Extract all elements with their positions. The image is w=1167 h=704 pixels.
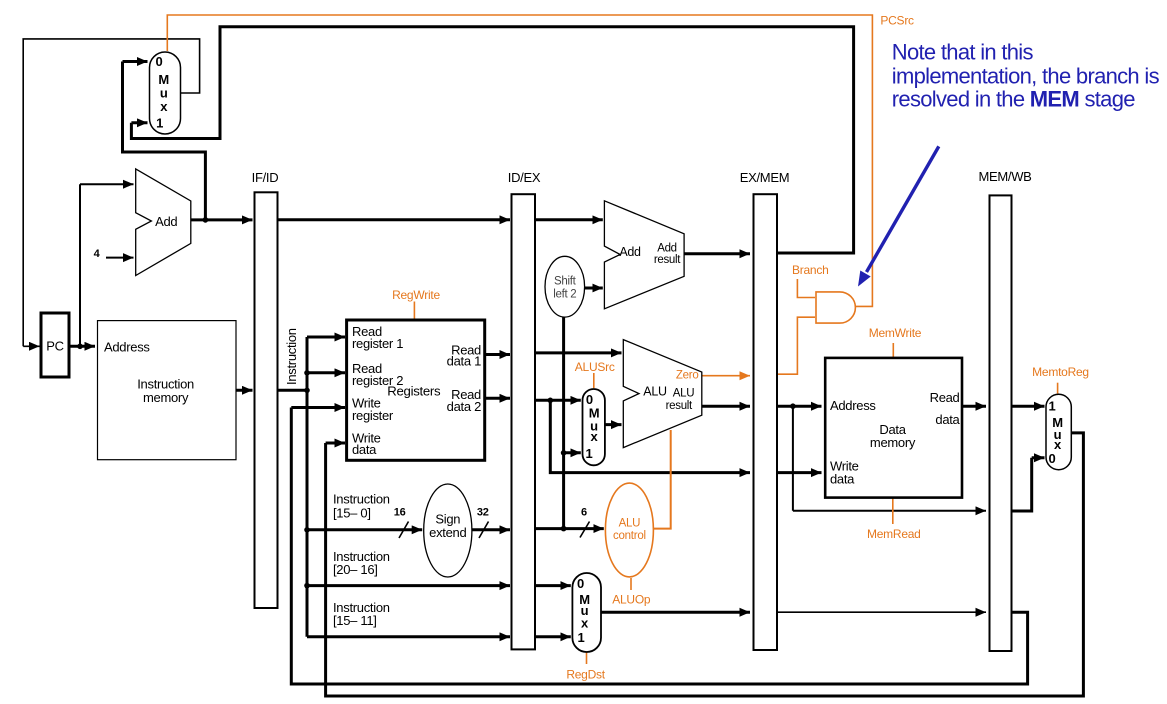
slash 6-bit bbox=[580, 522, 590, 538]
alu U-ALU bbox=[623, 340, 702, 448]
svg-text:Add: Add bbox=[657, 243, 677, 255]
wire Read data 1 to ID/EX bbox=[485, 353, 510, 356]
wire read data 2 down to EX/MEM bbox=[550, 400, 750, 472]
wire sign-extend branch to ALUSrc mux 1 bbox=[564, 451, 581, 454]
ellipse ALU control bbox=[605, 483, 653, 577]
svg-text:data: data bbox=[935, 412, 960, 427]
wire MEM/WB ALU result to MemtoReg mux 0 bbox=[1012, 458, 1045, 511]
svg-text:32: 32 bbox=[477, 507, 489, 519]
adder Add result (branch target) bbox=[604, 201, 684, 309]
svg-text:extend: extend bbox=[429, 525, 466, 540]
slash 16-bit bbox=[399, 522, 409, 539]
node sign extend bus junction at mux bbox=[561, 450, 567, 456]
wire PC junction up to Add top input bbox=[80, 184, 134, 346]
svg-text:data: data bbox=[830, 472, 855, 487]
svg-text:Registers: Registers bbox=[387, 383, 441, 398]
svg-text:[20– 16]: [20– 16] bbox=[333, 562, 378, 577]
register PC bbox=[41, 313, 69, 377]
svg-text:register 1: register 1 bbox=[352, 336, 403, 351]
wire instruction 15-0 to sign extend bbox=[307, 528, 422, 531]
svg-text:ALU: ALU bbox=[673, 387, 694, 399]
svg-text:register: register bbox=[352, 408, 394, 423]
mux PC source mux bbox=[150, 52, 181, 134]
memory data memory bbox=[825, 358, 962, 498]
svg-text:EX/MEM: EX/MEM bbox=[740, 170, 789, 185]
svg-text:ALU: ALU bbox=[619, 517, 641, 529]
ORANGE CONTROL LABELS bbox=[392, 13, 1089, 681]
svg-text:Instruction: Instruction bbox=[284, 328, 299, 385]
node instruction bus junction read register 2 bbox=[304, 370, 310, 376]
wire instruction bus from IF/ID bbox=[278, 337, 308, 637]
wire instruction to Read register 2 bbox=[307, 371, 345, 374]
wire instruction 15-11 to ID/EX bbox=[307, 635, 510, 638]
node instruction bus junction 20-16 bbox=[304, 583, 310, 589]
wire sign-extend bus up to shift left 2 bbox=[562, 317, 565, 528]
wire EX/MEM ALU result to data memory address bbox=[777, 405, 822, 408]
wire RegDst control stub bbox=[586, 653, 588, 665]
svg-text:Instruction: Instruction bbox=[333, 492, 390, 507]
wire ALUSrc mux output to ALU bbox=[605, 423, 622, 426]
svg-text:1: 1 bbox=[578, 630, 585, 645]
wire instruction memory output to IF/ID bbox=[236, 389, 253, 392]
svg-text:Address: Address bbox=[830, 398, 876, 413]
svg-text:Note that in this: Note that in this bbox=[892, 40, 1034, 65]
svg-text:RegDst: RegDst bbox=[566, 667, 605, 681]
svg-text:MemtoReg: MemtoReg bbox=[1032, 365, 1089, 379]
wire instruction 15-11 from ID/EX to RegDst mux 1 bbox=[535, 635, 571, 638]
svg-text:data: data bbox=[352, 442, 377, 457]
mux RegDst mux bbox=[572, 573, 601, 652]
wire PC+4 to top mux input 0 bbox=[123, 62, 206, 220]
wire Add output to IF/ID bbox=[191, 218, 253, 221]
wire PC+4 from ID/EX to branch adder bbox=[535, 218, 603, 221]
svg-text:PCSrc: PCSrc bbox=[880, 13, 914, 27]
wire ALUOp control stub bbox=[630, 578, 632, 590]
ellipse sign extend bbox=[424, 484, 472, 577]
wire EX/MEM write data to data memory bbox=[777, 471, 822, 474]
svg-text:x: x bbox=[1054, 437, 1062, 452]
wire top mux output wrap-around to PC bbox=[23, 39, 199, 346]
wire data memory read data to MEM/WB bbox=[962, 405, 986, 408]
wire constant 4 into Add bbox=[106, 257, 134, 259]
svg-text:result: result bbox=[654, 254, 681, 266]
wire instruction 20-16 from ID/EX to RegDst mux 0 bbox=[535, 584, 571, 587]
svg-text:Branch: Branch bbox=[792, 263, 829, 277]
svg-text:memory: memory bbox=[870, 435, 916, 450]
svg-text:RegWrite: RegWrite bbox=[392, 288, 440, 302]
wire branch target from EX/MEM to top mux input 1 bbox=[131, 27, 853, 253]
wire instruction to Read register 1 bbox=[307, 336, 345, 339]
svg-text:Read: Read bbox=[930, 390, 960, 405]
wire Branch control into AND gate bbox=[797, 279, 815, 298]
note blue annotation text bbox=[892, 40, 1160, 112]
arrow blue annotation arrow bbox=[867, 146, 939, 272]
svg-text:MEM/WB: MEM/WB bbox=[978, 169, 1031, 184]
wire MEM/WB read data to MemtoReg mux 1 bbox=[1012, 405, 1045, 408]
svg-text:ALUSrc: ALUSrc bbox=[575, 360, 615, 374]
node ALU result junction bbox=[790, 403, 796, 409]
memory instruction memory bbox=[98, 321, 237, 460]
wire ALU control output to ALU bbox=[653, 430, 670, 529]
register ID/EX bbox=[512, 194, 536, 649]
svg-text:1: 1 bbox=[586, 446, 593, 461]
mux ALUSrc mux bbox=[583, 389, 605, 465]
register EX/MEM bbox=[754, 194, 778, 650]
svg-text:result: result bbox=[666, 400, 693, 412]
registers register file bbox=[347, 320, 485, 460]
svg-text:0: 0 bbox=[1049, 451, 1056, 466]
svg-text:ALU: ALU bbox=[643, 385, 667, 399]
gate AND gate (branch) bbox=[816, 292, 855, 323]
wire RegWrite control stub bbox=[413, 302, 415, 320]
wire sign-extended bus ID/EX to ALU control bbox=[535, 527, 604, 530]
wire ALU result to EX/MEM bbox=[702, 405, 750, 408]
wire Read data 2 to ID/EX bbox=[485, 397, 510, 400]
svg-text:x: x bbox=[160, 99, 168, 114]
node instruction bus junction 15-0 bbox=[304, 527, 310, 533]
svg-text:[15– 11]: [15– 11] bbox=[333, 613, 377, 628]
svg-text:16: 16 bbox=[394, 507, 406, 519]
svg-text:[15– 0]: [15– 0] bbox=[333, 505, 371, 520]
register IF/ID bbox=[255, 192, 278, 608]
svg-text:ID/EX: ID/EX bbox=[508, 170, 541, 185]
node PC+4 junction bbox=[203, 217, 209, 223]
wire ID/EX read data 2 to ALUSrc mux 0 bbox=[535, 399, 581, 402]
wire MemtoReg control stub bbox=[1057, 383, 1059, 394]
slash 32-bit bbox=[479, 522, 489, 539]
wire ALUSrc control stub bbox=[593, 373, 595, 388]
svg-text:Zero: Zero bbox=[676, 370, 699, 382]
svg-text:control: control bbox=[613, 530, 646, 542]
wire branch adder result to EX/MEM bbox=[684, 252, 750, 255]
wire ID/EX to ALU top input bbox=[535, 351, 622, 354]
svg-text:Add: Add bbox=[155, 214, 177, 229]
svg-text:IF/ID: IF/ID bbox=[252, 170, 279, 185]
wire shift left 2 output to branch adder bbox=[585, 287, 603, 290]
wire instruction 20-16 to ID/EX bbox=[307, 584, 510, 587]
svg-text:x: x bbox=[591, 429, 599, 444]
mux MemtoReg mux bbox=[1046, 394, 1071, 469]
wire PC output to instruction memory address bbox=[69, 345, 95, 348]
svg-text:MemRead: MemRead bbox=[867, 527, 921, 541]
svg-text:0: 0 bbox=[577, 576, 584, 591]
svg-text:1: 1 bbox=[156, 115, 163, 130]
svg-text:MemWrite: MemWrite bbox=[869, 326, 922, 340]
wire PC+4 from IF/ID to ID/EX bbox=[278, 218, 511, 221]
wire sign extend output to ID/EX bbox=[472, 528, 510, 531]
wire register destination EX/MEM to MEM/WB bbox=[777, 611, 986, 613]
wire MemtoReg mux output wrap-around to write data bbox=[326, 433, 1084, 696]
wire MemWrite control stub bbox=[892, 343, 894, 357]
wire RegDst mux output to EX/MEM bbox=[601, 611, 750, 614]
wire ALU result bypass to MEM/WB bbox=[793, 406, 986, 511]
svg-text:Address: Address bbox=[104, 339, 150, 354]
wire MemRead control stub bbox=[892, 498, 894, 524]
node instruction bus junction main bbox=[304, 388, 310, 394]
adder Add (PC+4) bbox=[136, 169, 191, 276]
svg-text:implementation, the branch is: implementation, the branch is bbox=[892, 63, 1160, 88]
svg-text:data 2: data 2 bbox=[447, 399, 481, 414]
svg-text:1: 1 bbox=[1049, 399, 1056, 414]
wire PCSrc from AND gate to top mux select bbox=[167, 15, 872, 306]
svg-text:0: 0 bbox=[156, 54, 163, 69]
svg-text:6: 6 bbox=[581, 506, 587, 518]
svg-text:data 1: data 1 bbox=[447, 354, 481, 369]
svg-text:memory: memory bbox=[143, 390, 189, 405]
node sign extend bus junction lower bbox=[561, 526, 567, 532]
wire Zero from EX/MEM into AND gate bbox=[777, 317, 815, 374]
wire write register wrap-around from MEM/WB bbox=[291, 408, 1027, 685]
svg-text:Shift: Shift bbox=[554, 275, 577, 287]
svg-text:resolved in the MEM stage: resolved in the MEM stage bbox=[892, 86, 1135, 111]
svg-text:0: 0 bbox=[586, 392, 593, 407]
wire Zero flag ALU to EX/MEM bbox=[702, 375, 750, 377]
node read data 2 junction bbox=[548, 398, 554, 404]
svg-text:Add: Add bbox=[619, 245, 641, 259]
ellipse shift left 2 bbox=[545, 256, 585, 317]
svg-text:ALUOp: ALUOp bbox=[612, 593, 651, 607]
register MEM/WB bbox=[990, 195, 1012, 651]
node PC output junction bbox=[77, 344, 83, 350]
svg-text:x: x bbox=[581, 615, 589, 630]
svg-text:left 2: left 2 bbox=[553, 289, 576, 301]
svg-text:PC: PC bbox=[46, 339, 63, 354]
